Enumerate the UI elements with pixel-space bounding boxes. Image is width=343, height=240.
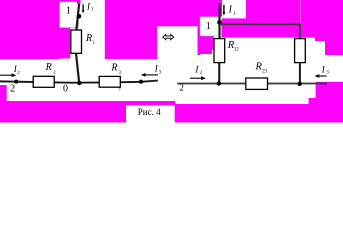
current arrow I1 (right circuit): [223, 5, 225, 13]
node 3 dot (left circuit): [139, 80, 143, 84]
node 2 dot (left circuit): [14, 80, 18, 84]
svg-text:R: R: [85, 33, 92, 44]
node 1 junction dot (left circuit): [77, 14, 82, 19]
svg-text:1: 1: [66, 6, 71, 17]
wire node 1 to R12 (right circuit): [219, 3, 221, 39]
wire node 1 to R1 (left circuit): [75, 4, 80, 30]
equivalence symbol: [163, 35, 174, 40]
equivalence box: [157, 26, 198, 57]
svg-text:12: 12: [234, 47, 239, 52]
current arrow I2 (right circuit): [190, 77, 202, 79]
bottom wire node 2 to node 3 (right circuit): [177, 83, 327, 85]
node 1 label box (right circuit): [200, 17, 219, 36]
svg-text:R: R: [45, 62, 52, 73]
bottom wire node 2 to node 3 (left circuit): [0, 80, 158, 84]
resistor R23: [246, 78, 268, 89]
svg-text:2: 2: [179, 82, 184, 92]
top wire node 1 to R13 (right circuit): [220, 23, 301, 25]
node 1 label box (left circuit): [59, 2, 78, 28]
svg-text:23: 23: [262, 70, 267, 75]
svg-text:I: I: [228, 5, 233, 16]
resistor R1: [71, 30, 82, 53]
svg-text:R: R: [110, 62, 117, 73]
svg-text:2: 2: [10, 84, 15, 95]
label box for current I1 (right circuit): [222, 0, 246, 18]
node 0 junction dot: [77, 81, 81, 85]
svg-text:0: 0: [63, 83, 68, 94]
node 3 junction dot (right circuit): [298, 82, 302, 86]
node 1 junction dot (right circuit): [217, 20, 222, 25]
current arrow I1 (left circuit): [82, 4, 84, 11]
current arrow I2 (left circuit): [0, 74, 13, 76]
wire R13 to node 3 (right circuit): [299, 63, 301, 85]
svg-text:1: 1: [206, 21, 211, 32]
svg-text:Рис. 4: Рис. 4: [138, 107, 161, 117]
node 2 junction dot (right circuit): [217, 81, 221, 85]
resistor R3: [99, 76, 120, 87]
resistor R2: [33, 76, 54, 87]
resistor R13: [295, 39, 306, 63]
resistor R12: [214, 39, 225, 63]
current arrow I3 (left circuit): [145, 74, 159, 76]
wire R1 to node 0 (left circuit): [75, 53, 81, 84]
caption box: [126, 105, 175, 122]
current arrow I3 (right circuit): [318, 75, 327, 77]
wire R12 to node 2 (right circuit): [218, 63, 220, 85]
